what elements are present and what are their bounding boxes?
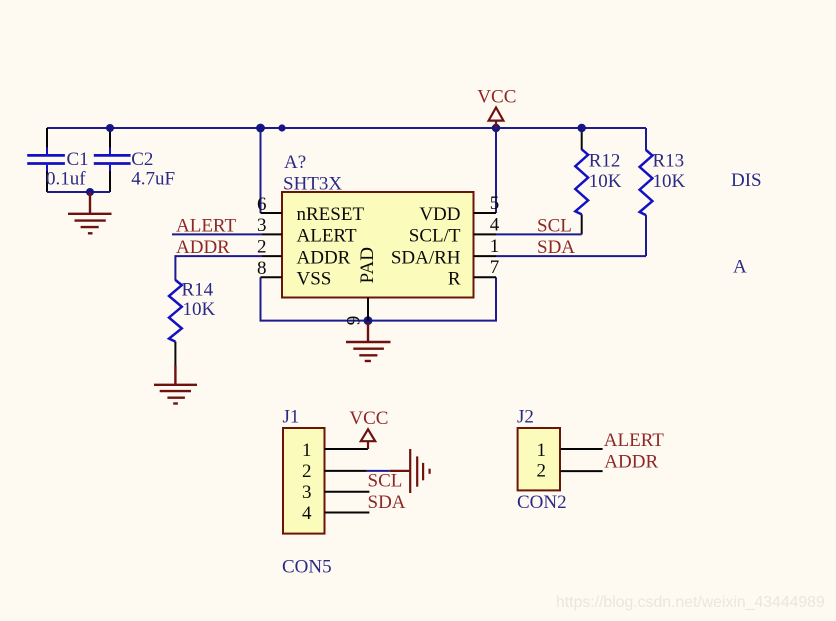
svg-text:2: 2 bbox=[537, 460, 547, 481]
svg-text:https://blog.csdn.net/weixin_4: https://blog.csdn.net/weixin_43444989 bbox=[556, 594, 825, 611]
wire nRESET to rail bbox=[260, 128, 262, 213]
pin J2-2 bbox=[561, 470, 603, 472]
pin 7 R bbox=[448, 257, 499, 290]
pin 1 SDA/RH bbox=[391, 236, 499, 268]
svg-text:SCL/T: SCL/T bbox=[409, 226, 461, 247]
svg-text:R13: R13 bbox=[653, 150, 685, 171]
svg-text:10K: 10K bbox=[653, 171, 686, 192]
pin 4 SCL/T bbox=[409, 215, 500, 247]
op-amp U1 IC A? SHT3X body bbox=[282, 152, 474, 298]
pin 3 ALERT bbox=[257, 215, 357, 247]
svg-text:5: 5 bbox=[490, 193, 500, 214]
wire J1-2 to ground bbox=[367, 470, 390, 472]
ground G2 below PAD bbox=[346, 322, 391, 361]
resistor R13 bbox=[640, 128, 686, 256]
wire VDD to rail bbox=[495, 128, 497, 213]
svg-text:A: A bbox=[733, 257, 747, 278]
watermark bbox=[556, 594, 825, 611]
svg-text:10K: 10K bbox=[183, 299, 216, 320]
wire capacitor bottom bbox=[47, 191, 110, 193]
svg-text:CON5: CON5 bbox=[282, 557, 332, 578]
svg-text:ALERT: ALERT bbox=[297, 226, 357, 247]
svg-text:4: 4 bbox=[302, 503, 312, 524]
power VCC main bbox=[477, 87, 516, 130]
svg-text:nRESET: nRESET bbox=[297, 204, 365, 225]
svg-text:DIS: DIS bbox=[731, 170, 762, 191]
connector J1 CON5 bbox=[282, 407, 332, 578]
junction PAD bottom bbox=[364, 316, 373, 325]
svg-text:ADDR: ADDR bbox=[176, 237, 230, 258]
label ADDR net bbox=[176, 237, 230, 258]
svg-text:R12: R12 bbox=[589, 150, 621, 171]
svg-text:0.1uf: 0.1uf bbox=[46, 168, 86, 189]
junction capacitor bottom bbox=[86, 188, 94, 196]
ground G3 below R14 bbox=[154, 365, 197, 404]
pin 8 VSS bbox=[257, 258, 331, 290]
svg-text:4.7uF: 4.7uF bbox=[131, 168, 175, 189]
junction rail x282 bbox=[278, 124, 285, 131]
pin 9 PAD bbox=[343, 247, 378, 325]
label DIS bbox=[731, 170, 762, 191]
svg-text:1: 1 bbox=[302, 440, 312, 461]
svg-text:PAD: PAD bbox=[357, 247, 378, 283]
wire top VCC rail bbox=[47, 127, 646, 129]
resistor R12 bbox=[575, 128, 621, 234]
svg-text:J1: J1 bbox=[283, 407, 300, 428]
label A bbox=[733, 257, 747, 278]
label SDA bbox=[537, 237, 575, 258]
junction C2 top bbox=[106, 124, 114, 132]
svg-text:6: 6 bbox=[257, 194, 267, 215]
svg-text:3: 3 bbox=[302, 482, 312, 503]
svg-text:J2: J2 bbox=[517, 407, 534, 428]
svg-text:ALERT: ALERT bbox=[176, 216, 236, 237]
pin J1-2 bbox=[325, 470, 367, 472]
svg-text:3: 3 bbox=[257, 215, 267, 236]
svg-text:4: 4 bbox=[490, 215, 500, 236]
svg-text:A?: A? bbox=[284, 152, 306, 173]
svg-text:ADDR: ADDR bbox=[297, 247, 351, 268]
svg-text:9: 9 bbox=[343, 316, 364, 326]
junction R12 rail bbox=[578, 124, 586, 132]
svg-text:2: 2 bbox=[302, 461, 312, 482]
svg-text:R14: R14 bbox=[182, 279, 214, 300]
wire VSS loop bottom bbox=[261, 277, 497, 320]
wire ADDR bbox=[175, 256, 262, 280]
svg-text:CON2: CON2 bbox=[517, 492, 567, 513]
svg-text:C1: C1 bbox=[67, 149, 89, 170]
svg-text:SCL: SCL bbox=[537, 216, 572, 237]
capacitor C1 bbox=[27, 128, 88, 192]
svg-text:C2: C2 bbox=[131, 149, 153, 170]
wire SDA net bbox=[496, 255, 646, 257]
label ADDR J2 bbox=[604, 452, 658, 473]
ground G4 sideways at J1 bbox=[390, 449, 430, 493]
label ALERT J2 bbox=[604, 430, 664, 451]
pin 5 VDD bbox=[419, 193, 499, 225]
connector J2 CON2 bbox=[517, 407, 567, 513]
svg-text:VDD: VDD bbox=[419, 204, 460, 225]
svg-text:SDA/RH: SDA/RH bbox=[391, 247, 461, 268]
capacitor C2 bbox=[94, 128, 175, 192]
svg-text:ADDR: ADDR bbox=[604, 452, 658, 473]
svg-text:VCC: VCC bbox=[349, 408, 388, 429]
junction VCC rail bbox=[492, 124, 500, 132]
label SCL J1 bbox=[368, 471, 403, 492]
label SCL bbox=[537, 216, 572, 237]
svg-text:7: 7 bbox=[490, 257, 500, 278]
svg-text:R: R bbox=[448, 269, 461, 290]
svg-text:1: 1 bbox=[490, 236, 500, 257]
wire ALERT bbox=[172, 233, 262, 235]
svg-text:SDA: SDA bbox=[537, 237, 575, 258]
pin J2-1 bbox=[561, 448, 603, 450]
svg-text:8: 8 bbox=[257, 258, 267, 279]
svg-text:SDA: SDA bbox=[368, 492, 406, 513]
svg-text:ALERT: ALERT bbox=[604, 430, 664, 451]
svg-text:VSS: VSS bbox=[297, 269, 332, 290]
svg-text:SHT3X: SHT3X bbox=[283, 174, 342, 195]
pin J1-4 bbox=[325, 512, 370, 514]
svg-text:2: 2 bbox=[257, 236, 267, 257]
pin J1-1 bbox=[325, 448, 369, 450]
pin 6 nRESET bbox=[257, 194, 364, 225]
pin J1-3 bbox=[325, 491, 370, 493]
pin 2 ADDR bbox=[257, 236, 351, 268]
svg-text:SCL: SCL bbox=[368, 471, 403, 492]
label ALERT net bbox=[176, 216, 236, 237]
resistor R14 bbox=[169, 279, 216, 365]
svg-text:VCC: VCC bbox=[477, 87, 516, 108]
power VCC J1 bbox=[349, 408, 388, 449]
label SDA J1 bbox=[368, 492, 406, 513]
wire SCL net bbox=[496, 233, 582, 235]
junction nRESET rail bbox=[256, 124, 265, 133]
ground G1 below capacitors bbox=[68, 192, 112, 233]
svg-text:10K: 10K bbox=[589, 171, 622, 192]
svg-text:1: 1 bbox=[537, 440, 547, 461]
